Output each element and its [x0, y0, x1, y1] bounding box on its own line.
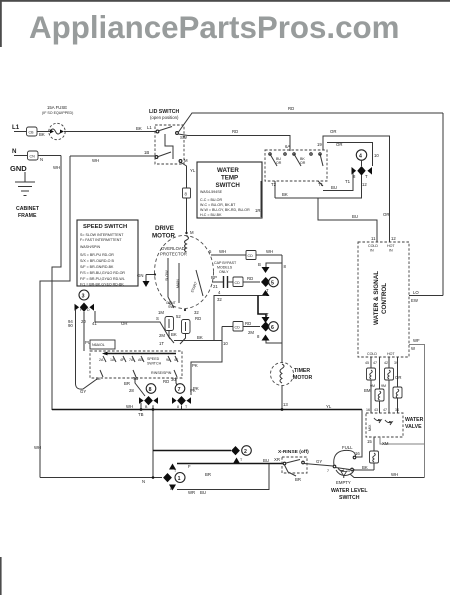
svg-text:GY: GY	[80, 389, 86, 394]
svg-text:CN: CN	[30, 155, 36, 159]
page left border tick top	[0, 0, 2, 47]
drive motor M1	[152, 225, 214, 315]
connector 8 inline	[183, 188, 191, 198]
svg-text:BK: BK	[197, 335, 203, 340]
svg-text:MIX: MIX	[368, 424, 372, 431]
water temp switch contacts box	[265, 150, 327, 181]
svg-text:2A: 2A	[99, 358, 104, 362]
svg-text:21: 21	[213, 284, 218, 289]
svg-text:YL: YL	[190, 168, 196, 173]
svg-text:EMPTY: EMPTY	[336, 480, 351, 485]
svg-text:BU: BU	[331, 185, 337, 190]
svg-text:7: 7	[327, 469, 329, 473]
svg-text:OR: OR	[276, 161, 282, 165]
svg-text:COLD: COLD	[367, 352, 377, 356]
svg-text:WR: WR	[188, 490, 195, 495]
svg-text:AppliancePartsPros.com: AppliancePartsPros.com	[29, 10, 399, 45]
svg-text:S/F = BR-GN/RD-BK: S/F = BR-GN/RD-BK	[80, 265, 114, 269]
svg-text:TB: TB	[138, 412, 144, 417]
page left border tick bottom	[0, 557, 2, 595]
wire N down left rail	[52, 156, 61, 411]
wire OR to connector 4	[327, 142, 379, 166]
svg-text:RD: RD	[163, 379, 169, 384]
svg-text:32: 32	[217, 297, 222, 302]
svg-text:T: T	[266, 288, 269, 293]
wire water level to valve BK	[353, 465, 374, 470]
svg-text:BK: BK	[282, 192, 288, 197]
svg-text:BK: BK	[171, 332, 177, 337]
wire temp T1 arm	[318, 181, 324, 187]
wire motor bottom BK run	[159, 331, 222, 347]
watermark header AppliancePartsPros.com	[29, 10, 399, 45]
speed switch legend box	[77, 220, 138, 287]
node N	[12, 148, 17, 155]
fuse F1 15A	[42, 105, 73, 140]
wire start winding to connector 5	[214, 290, 266, 340]
svg-text:1R: 1R	[255, 208, 261, 213]
svg-text:FULL: FULL	[342, 445, 353, 450]
wire motor 5 to WH cap line	[211, 249, 282, 255]
wire rail down right of motor	[282, 255, 288, 410]
svg-text:1: 1	[178, 476, 181, 482]
water valve box	[366, 413, 424, 437]
svg-text:15A FUSE: 15A FUSE	[47, 105, 67, 110]
svg-text:7B: 7B	[133, 376, 138, 381]
svg-text:L1: L1	[12, 124, 20, 131]
X-rinse switch	[278, 449, 309, 482]
svg-text:T1: T1	[318, 182, 324, 187]
connector 1	[163, 464, 185, 492]
svg-text:MODELS: MODELS	[217, 266, 233, 270]
svg-text:45: 45	[365, 361, 369, 365]
svg-text:47: 47	[373, 361, 377, 365]
svg-text:WH: WH	[391, 472, 398, 477]
svg-text:S: S	[156, 316, 159, 321]
svg-text:GN: GN	[137, 273, 143, 278]
svg-text:8: 8	[177, 405, 179, 409]
svg-text:12: 12	[362, 182, 367, 187]
speed switch relay box	[90, 340, 115, 349]
svg-text:WH: WH	[92, 158, 99, 163]
connector CB on L1	[27, 127, 45, 137]
motor plug S box	[156, 316, 174, 331]
svg-text:42: 42	[384, 361, 388, 365]
svg-text:7A: 7A	[129, 358, 134, 362]
svg-text:F/1 = BR-BK,GY&O RD-BK: F/1 = BR-BK,GY&O RD-BK	[80, 283, 124, 287]
svg-text:AB: AB	[138, 358, 143, 362]
svg-text:9M: 9M	[381, 384, 386, 388]
water valve solenoid B3	[364, 384, 386, 401]
svg-text:BU: BU	[352, 214, 358, 219]
motor plug R box	[176, 314, 201, 334]
connector 3	[75, 290, 95, 312]
svg-text:WAS4-594SE: WAS4-594SE	[200, 190, 223, 194]
svg-text:CABINET: CABINET	[16, 206, 40, 212]
svg-text:FRAME: FRAME	[18, 213, 37, 219]
svg-text:WATER LEVEL: WATER LEVEL	[331, 488, 368, 494]
water valve solenoid B2	[385, 368, 402, 380]
svg-text:HOT: HOT	[387, 244, 395, 248]
svg-text:T: T	[266, 312, 269, 317]
svg-text:XR: XR	[274, 457, 280, 462]
wire temp contact T2 leg	[271, 181, 277, 198]
svg-text:OR: OR	[330, 129, 336, 134]
cap bypass note	[214, 261, 237, 274]
wire bottom WH run	[350, 472, 425, 478]
wire valve XM run	[380, 437, 425, 446]
wire lid SW to temp contacts RD	[178, 129, 290, 151]
wire fuse to lid switch BK	[64, 125, 156, 132]
connector CD upper	[246, 251, 256, 260]
wire circle1 feed N	[40, 476, 162, 484]
svg-text:T2: T2	[271, 182, 277, 187]
water temp switch legend box	[197, 162, 262, 218]
svg-text:4: 4	[359, 154, 362, 160]
svg-text:47: 47	[383, 408, 387, 412]
svg-text:L1: L1	[147, 125, 152, 130]
svg-text:T1: T1	[345, 179, 351, 184]
svg-text:WATER: WATER	[217, 167, 239, 174]
svg-text:15: 15	[346, 469, 350, 473]
svg-text:ONLY: ONLY	[219, 270, 229, 274]
svg-text:MAIN: MAIN	[176, 279, 180, 288]
svg-text:WH: WH	[126, 404, 133, 409]
wire OR top run to pin12	[317, 129, 396, 242]
ground GND cabinet frame	[10, 164, 40, 219]
svg-text:10: 10	[223, 341, 228, 346]
svg-text:IN: IN	[389, 249, 393, 253]
water and signal control box	[358, 242, 409, 357]
node L1	[12, 124, 20, 131]
connector 8	[139, 384, 158, 409]
svg-text:WATER: WATER	[405, 417, 424, 423]
svg-text:F/F = BR-PU,GY&O RD-WL: F/F = BR-PU,GY&O RD-WL	[80, 277, 125, 281]
svg-text:BM: BM	[364, 388, 371, 393]
svg-text:2: 2	[244, 449, 247, 455]
svg-text:52: 52	[176, 314, 181, 319]
svg-text:6: 6	[271, 325, 274, 331]
svg-text:(open position): (open position)	[150, 115, 179, 120]
svg-text:B: B	[258, 262, 261, 267]
svg-text:MOTOR: MOTOR	[293, 375, 312, 381]
svg-text:RP: RP	[211, 275, 217, 280]
svg-text:T: T	[365, 174, 368, 179]
svg-text:90: 90	[68, 323, 73, 328]
svg-text:OR: OR	[300, 161, 306, 165]
svg-text:S/S = BR-PU RD-OR: S/S = BR-PU RD-OR	[80, 253, 114, 257]
svg-text:15: 15	[367, 439, 372, 444]
page top border	[0, 0, 450, 2]
svg-text:28: 28	[129, 388, 134, 393]
svg-text:RD: RD	[232, 129, 238, 134]
svg-text:BR: BR	[295, 477, 301, 482]
svg-text:XM: XM	[382, 441, 389, 446]
svg-text:BR: BR	[205, 472, 211, 477]
svg-text:H-C = BU-BK: H-C = BU-BK	[200, 213, 222, 217]
wire WH branch to lid switch	[34, 150, 156, 478]
water valve solenoid B5	[370, 451, 379, 470]
svg-text:RD: RD	[288, 106, 294, 111]
lid switch SW1 (open position)	[149, 109, 188, 164]
svg-text:EW: EW	[411, 298, 419, 303]
svg-text:SWITCH: SWITCH	[339, 495, 360, 501]
svg-text:2M: 2M	[248, 330, 254, 335]
svg-text:PK: PK	[190, 388, 196, 393]
svg-text:6A: 6A	[285, 144, 290, 149]
svg-text:VALVE: VALVE	[405, 424, 422, 430]
svg-text:CD: CD	[248, 254, 254, 258]
svg-text:F= FAST INTERMITTENT: F= FAST INTERMITTENT	[80, 238, 122, 242]
svg-text:CB: CB	[29, 131, 35, 135]
svg-text:BR: BR	[124, 381, 130, 386]
wire circle1 top BR run to X-rinse	[177, 457, 284, 477]
svg-text:LO: LO	[413, 290, 419, 295]
connector 4	[352, 150, 373, 179]
svg-text:OR: OR	[121, 321, 127, 326]
svg-text:CAP BYPAST: CAP BYPAST	[214, 261, 237, 265]
svg-text:19: 19	[317, 142, 322, 147]
wire X-rinse to water level GY	[304, 459, 333, 466]
svg-text:34: 34	[395, 408, 399, 412]
svg-text:SLOW: SLOW	[165, 270, 169, 281]
svg-text:WATER & SIGNAL: WATER & SIGNAL	[373, 271, 380, 325]
svg-text:PK: PK	[192, 363, 198, 368]
svg-text:W-C = BU-OR, BK-BT: W-C = BU-OR, BK-BT	[200, 203, 236, 207]
svg-text:S= SLOW INTERMITTENT: S= SLOW INTERMITTENT	[80, 233, 124, 237]
wire speed switch to connector 7 RD	[163, 377, 180, 392]
svg-text:10: 10	[374, 153, 379, 158]
svg-text:30: 30	[171, 377, 176, 382]
svg-text:N: N	[40, 157, 43, 162]
svg-text:PROTECTOR: PROTECTOR	[160, 252, 187, 257]
wire T1 BU run	[323, 173, 353, 191]
connector 2	[231, 446, 251, 464]
svg-text:BK: BK	[136, 126, 142, 131]
svg-text:BK: BK	[362, 465, 368, 470]
wire valve to solenoid 5	[367, 437, 374, 451]
connector CN on N	[28, 151, 39, 160]
water valve solenoid pins	[365, 357, 398, 389]
wire connector3 left leg to GY	[68, 310, 97, 394]
svg-text:CD: CD	[235, 326, 241, 330]
svg-text:GND: GND	[10, 164, 27, 173]
wire temp contact spare leg	[255, 181, 261, 217]
wire L1 to fuse	[14, 131, 50, 133]
wire N feed	[14, 156, 61, 163]
svg-text:HOT: HOT	[387, 352, 395, 356]
svg-text:BU: BU	[263, 458, 269, 463]
svg-text:RD: RD	[245, 321, 251, 326]
svg-text:OR: OR	[395, 375, 401, 380]
svg-text:8: 8	[149, 387, 152, 393]
svg-text:(IF SO EQUIPPED): (IF SO EQUIPPED)	[42, 111, 73, 115]
svg-text:BK: BK	[39, 132, 45, 137]
svg-text:OR: OR	[383, 212, 389, 217]
water valve solenoid B4	[393, 387, 402, 398]
svg-text:M: M	[184, 158, 188, 163]
svg-text:SWITCH: SWITCH	[147, 362, 162, 366]
capacitor C1	[211, 275, 233, 289]
svg-text:D: D	[87, 308, 90, 312]
water valve solenoid B1	[367, 368, 376, 380]
svg-text:5: 5	[271, 281, 274, 287]
wires solenoids to valve box	[366, 380, 399, 413]
svg-text:N6A/OL: N6A/OL	[92, 343, 105, 347]
svg-text:WH: WH	[219, 249, 226, 254]
wire lid M down YL	[181, 163, 196, 235]
wire connector 6 bottom to rail	[266, 341, 282, 344]
svg-text:41: 41	[92, 321, 97, 326]
svg-text:11: 11	[371, 236, 376, 241]
wire motor run to CD lower	[221, 327, 223, 363]
wire WF W exit	[409, 338, 425, 478]
connector 5	[258, 262, 282, 296]
connector CD mid	[233, 276, 260, 287]
svg-text:TEMP: TEMP	[221, 175, 238, 182]
svg-text:16: 16	[366, 408, 370, 412]
svg-text:WASH/SPIN: WASH/SPIN	[80, 245, 100, 249]
svg-text:WH: WH	[53, 165, 60, 170]
svg-text:RINSE/SPIN: RINSE/SPIN	[151, 371, 172, 375]
wire speed switch to connector 8 BR	[124, 376, 145, 396]
svg-text:WH: WH	[266, 249, 273, 254]
svg-text:1T: 1T	[159, 341, 164, 346]
svg-text:CD: CD	[235, 281, 241, 285]
svg-text:CONTROL: CONTROL	[381, 283, 388, 314]
svg-text:13: 13	[283, 402, 288, 407]
wire PK run to connector 7	[191, 341, 228, 396]
wire T2 BK run	[275, 175, 367, 198]
svg-text:WF: WF	[413, 338, 420, 343]
svg-text:M: M	[190, 230, 194, 235]
svg-text:2M: 2M	[159, 333, 165, 338]
wire slow winding junction	[258, 296, 266, 318]
wire connector3 right leg OR	[92, 311, 170, 339]
svg-text:X-RINSE (off): X-RINSE (off)	[278, 449, 309, 455]
svg-text:1A: 1A	[110, 358, 115, 362]
svg-text:F: F	[188, 464, 191, 469]
water level switch	[327, 445, 368, 501]
svg-text:S/X = BR-O&RD-O B: S/X = BR-O&RD-O B	[80, 259, 114, 263]
wire BU to pin 11	[318, 198, 377, 242]
svg-text:1B: 1B	[144, 150, 149, 155]
svg-text:N: N	[12, 148, 17, 155]
svg-text:RD: RD	[195, 316, 201, 321]
svg-text:MOTOR: MOTOR	[152, 233, 175, 240]
main bus N line	[52, 404, 362, 411]
svg-text:43: 43	[374, 408, 378, 412]
wire bus down to water level full	[355, 410, 362, 458]
wire lid switch to top RD line	[179, 106, 444, 132]
svg-text:RD: RD	[247, 276, 253, 281]
svg-text:12: 12	[391, 236, 396, 241]
svg-text:3A: 3A	[96, 377, 101, 381]
svg-text:SPEED: SPEED	[147, 357, 160, 361]
ground GN at motor	[137, 273, 156, 287]
svg-text:WH: WH	[34, 445, 41, 450]
svg-text:3: 3	[82, 294, 85, 300]
svg-text:BU: BU	[200, 490, 206, 495]
svg-text:7: 7	[178, 387, 181, 393]
connector CD lower	[222, 321, 260, 335]
wire connector3 mid leg PU	[81, 312, 91, 351]
svg-text:COLD: COLD	[368, 244, 378, 248]
svg-text:SPEED SWITCH: SPEED SWITCH	[83, 224, 127, 230]
svg-text:C-C = BU-OR: C-C = BU-OR	[200, 198, 222, 202]
speed switch contact box	[90, 351, 182, 381]
svg-text:1M: 1M	[158, 310, 164, 315]
wire LO EW exit	[409, 290, 443, 303]
svg-text:9A: 9A	[166, 358, 171, 362]
connector 6	[257, 312, 278, 341]
svg-text:GY: GY	[316, 459, 322, 464]
svg-text:32: 32	[194, 310, 199, 315]
svg-text:TIMER: TIMER	[294, 368, 310, 374]
svg-text:IN: IN	[370, 249, 374, 253]
timer motor TM	[271, 363, 313, 386]
svg-text:YL: YL	[326, 404, 332, 409]
svg-text:N: N	[142, 479, 145, 484]
svg-text:OVERLOAD: OVERLOAD	[161, 246, 185, 251]
svg-text:20: 20	[81, 319, 86, 324]
svg-text:OR: OR	[336, 142, 342, 147]
svg-text:W-W = BU-GY, BK-RD, BU-OR: W-W = BU-GY, BK-RD, BU-OR	[200, 208, 250, 212]
connector 7	[172, 384, 196, 410]
wire connector 8 legs	[126, 403, 153, 478]
wire circle1 bottom WR BU	[177, 464, 269, 495]
wire right rail RD down	[442, 113, 444, 296]
svg-text:F/S = BR-BU,GY&O RD-OR: F/S = BR-BU,GY&O RD-OR	[80, 271, 125, 275]
svg-text:DRIVE: DRIVE	[155, 225, 174, 232]
svg-text:SWITCH: SWITCH	[216, 182, 241, 189]
svg-text:8: 8	[170, 487, 172, 491]
wire bold feed to connector 2	[153, 450, 231, 452]
